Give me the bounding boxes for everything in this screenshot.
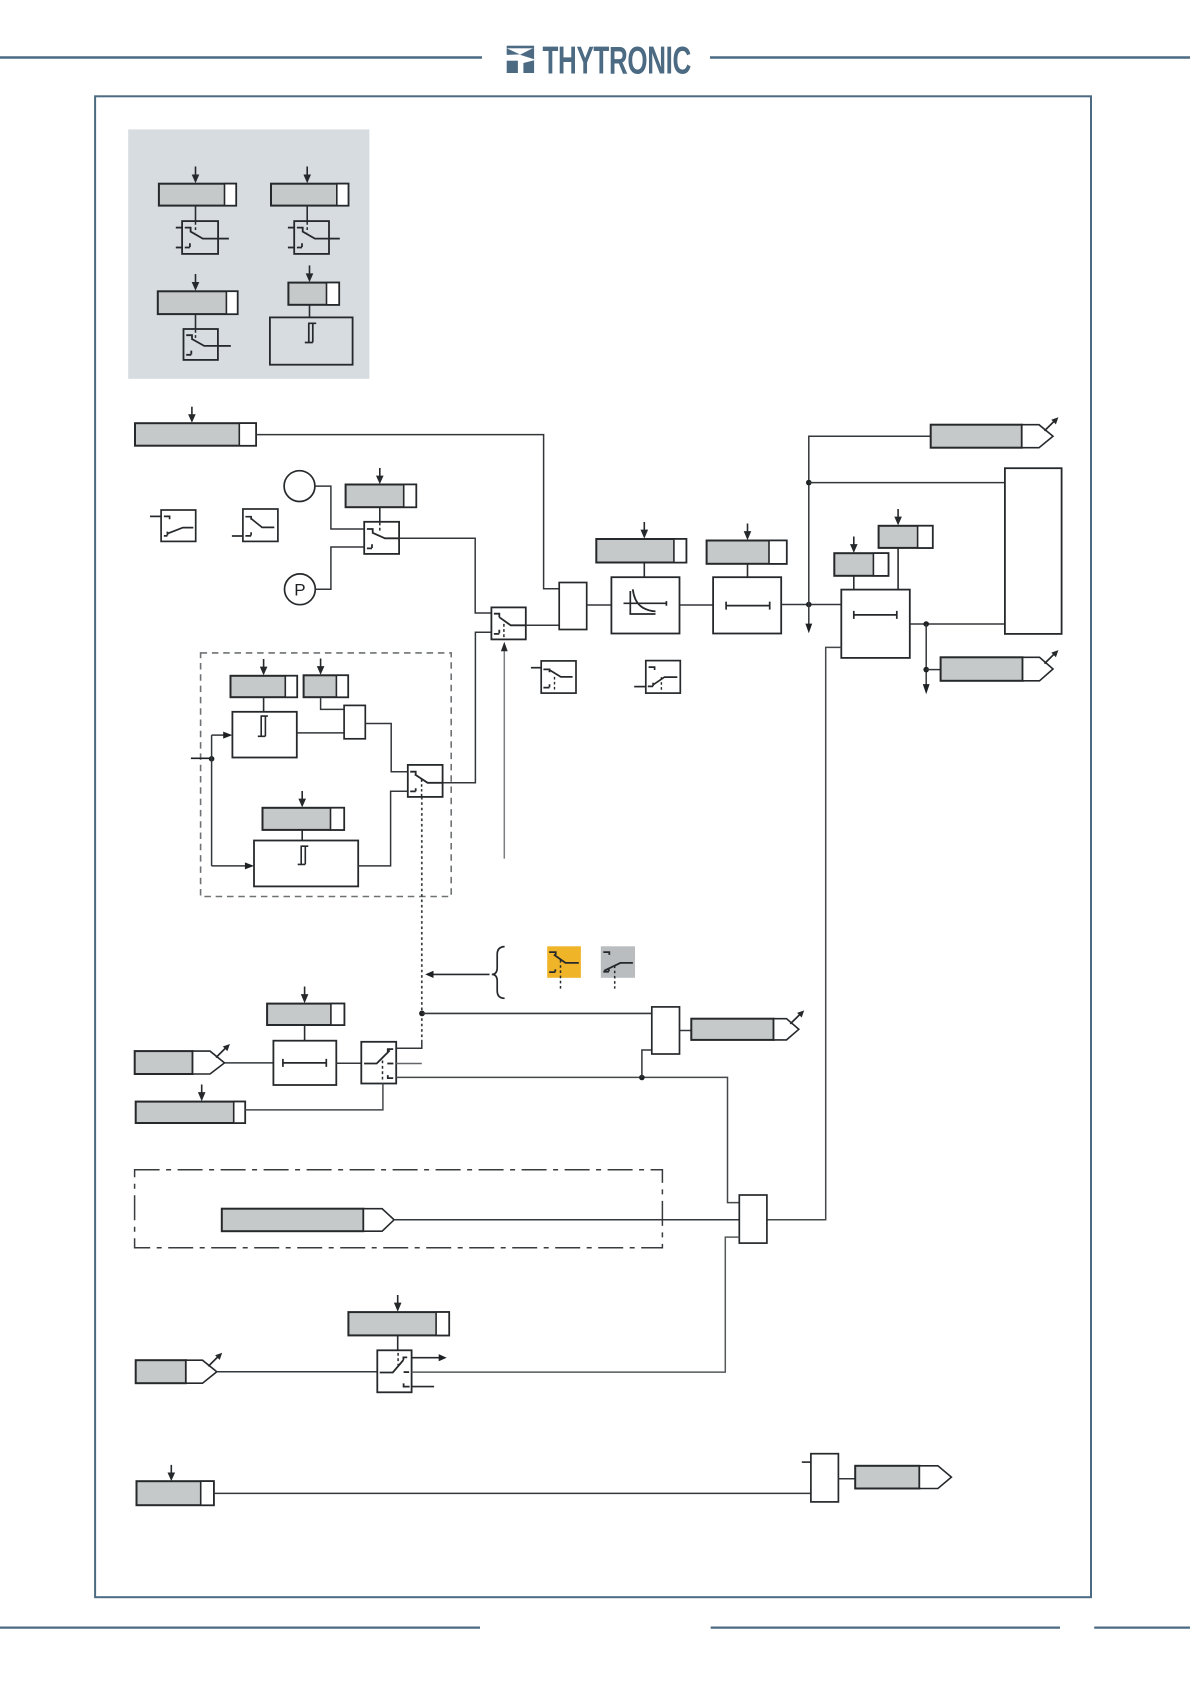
junction node start-output branch — [806, 480, 812, 486]
junction node at trip wire — [806, 602, 812, 608]
arrow into bar O2 — [394, 1295, 402, 1312]
output flag 2 (trip) — [941, 657, 1053, 681]
setting bar I1 — [879, 526, 933, 548]
definite-time box K3 — [273, 1041, 336, 1085]
input flag M1 — [222, 1209, 394, 1232]
arrow into bar E6 — [298, 791, 306, 807]
setting bar P1 — [137, 1481, 214, 1505]
legend background panel — [128, 129, 369, 378]
legend setting bar 4 — [288, 283, 339, 305]
junction node on K4 bottom wire — [639, 1075, 645, 1081]
wire bar H2 to definite-time box — [747, 564, 749, 577]
wire bar C to switch C — [379, 507, 381, 522]
AND box I with definite time marker — [841, 590, 910, 658]
wire E5 output to switch F input 2 — [443, 632, 492, 783]
junction node on trip output — [923, 621, 929, 627]
wire inverse-time to definite-time box — [680, 604, 714, 606]
selector switch O3 (mirrored) — [377, 1350, 411, 1392]
legend function box with pulse — [270, 317, 353, 364]
header rule left — [0, 56, 482, 59]
stub input into OR P2 — [802, 1461, 811, 1463]
footer rule middle — [711, 1626, 1060, 1628]
legend setting bar 2 — [271, 184, 348, 206]
wire bar2 to switch2 — [306, 206, 308, 222]
output arrow from switch O3 top — [412, 1354, 447, 1361]
page frame — [95, 96, 1091, 1597]
unconnected middle stub of switch K4 — [396, 1063, 422, 1065]
wire switch K4 bottom output to OR N input 1 — [396, 1077, 739, 1202]
wire bar K5 to switch K4 bottom — [245, 1084, 383, 1110]
wire bar1 to switch1 — [195, 206, 197, 222]
legend arrow into bar 1 — [192, 167, 200, 184]
setting bar E6 — [263, 808, 345, 830]
wire branch to output flag 2 — [926, 669, 940, 671]
control arrow up into switch F — [501, 642, 508, 859]
NE arrow on flag L2 — [790, 1010, 804, 1024]
OR gate E4 — [344, 705, 365, 738]
legend arrow into bar 3 — [192, 274, 200, 291]
annotation left arrow at brace — [425, 971, 489, 978]
setting bar H1 — [596, 539, 686, 563]
input bar B (top left) — [135, 423, 256, 446]
wire dotted line end into switch K4 top port — [396, 1040, 422, 1048]
wire bar E6 to pulse box E7 — [301, 830, 303, 841]
inverse-time characteristic box — [611, 577, 679, 633]
arrow into bar E1 — [260, 659, 268, 675]
wire riser to output flag 1 — [809, 436, 931, 604]
input stub into group E — [191, 757, 212, 759]
wire pulse box E7 output to switch E5 input 2 — [358, 791, 408, 866]
wire bar P1 to OR P2 — [214, 1492, 811, 1494]
setting bar H2 — [707, 541, 787, 564]
dashed group box E — [201, 653, 452, 897]
legend setting bar 1 — [159, 184, 236, 206]
wire bar E1 to pulse box E3 — [263, 697, 265, 712]
svg-text:P: P — [294, 580, 305, 599]
down arrowhead below flag2 branch — [923, 684, 930, 694]
setting bar K1 — [267, 1004, 344, 1025]
wire junction up to OR L1 input 2 — [642, 1050, 652, 1078]
wire bar O2 to switch O3 — [397, 1335, 399, 1350]
wire bar K1 to definite-time K3 — [304, 1025, 306, 1041]
measuring circle P — [285, 574, 316, 605]
setting bar E2 — [304, 675, 349, 697]
timer symbol D1 (rising ramp) — [150, 510, 196, 541]
THYTRONIC logo icon — [507, 46, 534, 73]
arrow into bar H2 — [744, 524, 752, 541]
arrow into bar E2 — [317, 659, 325, 675]
wire K3 output to switch K4 — [336, 1062, 361, 1064]
feedback wire from OR N up to AND box I input 3 — [767, 647, 841, 1219]
unconnected bottom stub of switch O3 — [412, 1386, 435, 1388]
footer rule left — [0, 1626, 480, 1628]
wire M-rect to inverse-time box — [587, 604, 612, 606]
wire junction down to flag 2 and arrow — [925, 624, 927, 685]
wire switch C output to switch F input 1 — [399, 538, 491, 613]
wire branch to function block input 1 — [809, 482, 1005, 484]
wire flag O1 to switch O3 — [217, 1371, 377, 1373]
setting bar K5 — [136, 1102, 245, 1123]
OR gate L1 — [652, 1007, 680, 1054]
legend timer yellow (breaker failure style) — [547, 946, 581, 989]
input flag K2 — [135, 1051, 225, 1074]
input flag O1 — [136, 1360, 217, 1383]
wire AND box I output to function block input 2 — [910, 623, 1005, 625]
setting bar C — [346, 485, 417, 508]
NE arrow on flag K2 — [216, 1044, 230, 1058]
selector switch E5 — [408, 765, 443, 797]
curly brace — [492, 947, 505, 999]
legend selector switch 3 — [184, 329, 231, 360]
arrow into bar H1 — [641, 522, 649, 539]
wire switch F output to M-rect input 2 — [526, 624, 559, 626]
wire pulse box E3 output to OR E4 — [297, 732, 344, 734]
legend arrow into bar 2 — [303, 167, 311, 184]
junction node group E input — [209, 756, 215, 762]
wire definite-time output to AND box I (with junction) — [781, 604, 841, 606]
junction node flag2 branch — [923, 667, 929, 673]
arrow into pulse box E3 — [212, 732, 233, 739]
arrow into bar B — [188, 407, 196, 423]
arrow into bar P1 — [168, 1465, 176, 1481]
wire bar B to M-rect (right then down) — [256, 435, 559, 589]
arrow into bar I2 — [850, 537, 858, 553]
OR gate P2 — [811, 1454, 839, 1502]
wire bar I2 to AND box I — [853, 576, 855, 590]
wire junction down to E7 arrow — [211, 759, 213, 866]
selector switch C — [364, 522, 399, 554]
setting bar O2 — [348, 1312, 449, 1335]
timer symbol D2 (falling ramp) — [232, 509, 278, 541]
setting bar E1 — [231, 676, 298, 697]
NE arrow on flag 2 — [1045, 650, 1059, 664]
wire circle1 to switch C input 1 — [315, 486, 364, 529]
selector switch K4 (mirrored) — [361, 1042, 396, 1084]
dash-dot group box M — [135, 1170, 663, 1248]
legend timer gray — [601, 946, 635, 988]
arrow into bar K5 — [198, 1085, 206, 1102]
selector switch F — [491, 607, 525, 639]
wire OR E4 output to switch E5 input 1 — [365, 724, 408, 772]
timer symbol G2 (rising, dashed) — [634, 661, 680, 694]
NE arrow on flag O1 — [208, 1353, 222, 1367]
legend selector switch 1 — [176, 221, 229, 254]
OR gate N — [739, 1195, 767, 1243]
wire flag K2 to definite-time K3 — [225, 1062, 274, 1064]
wire OR L1 to output flag L2 — [680, 1030, 692, 1032]
header rule right — [710, 56, 1190, 59]
function block (tall rectangle) — [1005, 468, 1062, 634]
measuring circle (blank) — [284, 471, 315, 502]
timer symbol G1 (falling, dashed) — [531, 661, 576, 693]
wire junction up to E3 arrow — [211, 735, 213, 759]
wire bar3 to switch3 — [195, 314, 197, 329]
wire switch O3 middle output to OR N input 3 — [412, 1237, 740, 1372]
down arrow continuation below junction — [805, 605, 812, 634]
pulse box E3 — [232, 712, 296, 758]
output flag P3 — [855, 1466, 951, 1489]
wire flag M1 to OR N input 2 — [394, 1219, 739, 1221]
arrow into bar I1 — [894, 509, 902, 525]
wire bar4 to function box — [309, 305, 311, 318]
junction node on dotted control line — [419, 1011, 425, 1017]
footer rule right — [1094, 1626, 1190, 1628]
wire bar H1 to inverse-time box — [643, 563, 645, 578]
output flag L2 — [691, 1019, 799, 1040]
arrow into bar K1 — [301, 987, 309, 1004]
wire OR P2 to output flag P3 — [838, 1478, 855, 1480]
svg-text:THYTRONIC: THYTRONIC — [543, 38, 691, 81]
pulse box E7 — [254, 841, 358, 887]
definite-time box F — [713, 577, 781, 633]
NE arrow on flag 1 — [1045, 417, 1059, 431]
legend setting bar 3 — [158, 291, 238, 314]
wire junction to OR L1 input 1 — [422, 1012, 652, 1014]
wire bar E2 to OR E4 — [321, 697, 345, 709]
output flag 1 (start) — [931, 425, 1053, 448]
dotted control line from switch E5 down to junction — [421, 797, 423, 1040]
M rectangle (vertical block) — [559, 583, 587, 630]
wire bar I1 to AND box I — [897, 548, 899, 590]
arrow into bar C — [376, 468, 384, 484]
legend selector switch 2 — [288, 221, 340, 254]
legend arrow into bar 4 — [306, 265, 314, 282]
wire circle P to switch C input 2 — [315, 547, 364, 589]
arrow into pulse box E7 — [212, 862, 254, 869]
setting bar I2 — [834, 553, 888, 576]
